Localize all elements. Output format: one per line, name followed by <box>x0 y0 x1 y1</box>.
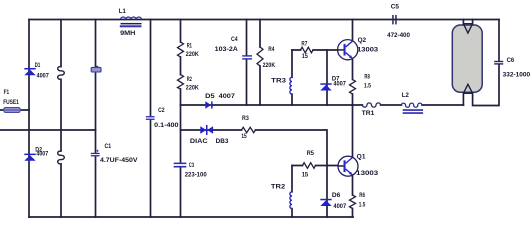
wire C2 line <box>150 20 152 218</box>
resistor R2 <box>178 75 184 90</box>
svg-text:220K: 220K <box>186 51 199 58</box>
resistor (bridge) lower squiggle <box>58 151 65 164</box>
wire Q1 collector <box>352 105 354 156</box>
svg-text:4007: 4007 <box>219 93 236 100</box>
svg-text:C5: C5 <box>391 3 400 10</box>
wire bottom rail <box>29 216 353 218</box>
svg-text:1.5: 1.5 <box>364 83 371 90</box>
resistor (bridge) upper squiggle <box>58 66 65 79</box>
wire Q2 collector <box>352 20 354 40</box>
svg-text:0.1-400: 0.1-400 <box>154 122 179 129</box>
svg-text:R1: R1 <box>187 43 192 50</box>
wire TR2 line <box>291 166 293 218</box>
svg-text:F1: F1 <box>4 89 10 96</box>
resistor R7 <box>301 47 314 53</box>
capacitor C1 <box>91 150 100 157</box>
wire R1 R2 C3 line <box>180 20 182 218</box>
svg-text:R6: R6 <box>359 192 365 199</box>
diode D1 <box>24 68 35 75</box>
svg-text:TR1: TR1 <box>362 110 375 117</box>
svg-text:DIAC: DIAC <box>190 138 208 145</box>
capacitor C6 <box>494 61 503 65</box>
svg-text:C4: C4 <box>231 36 238 43</box>
wire lamp bottom left pin <box>462 93 464 105</box>
lamp bottom filament <box>463 84 472 93</box>
wire left vertical (bridge column 1) <box>28 20 30 218</box>
capacitor C4 <box>242 55 252 59</box>
svg-text:15: 15 <box>302 53 308 60</box>
capacitor C2 <box>146 116 155 120</box>
diode D6 <box>320 199 331 206</box>
capacitor C5 <box>392 15 397 24</box>
wire AC neutral row <box>0 129 96 131</box>
winding TR3 <box>290 77 292 94</box>
svg-text:R2: R2 <box>187 76 192 83</box>
transistor Q1 <box>338 156 358 176</box>
fuse F1 <box>4 108 20 113</box>
resistor R1 <box>178 42 184 57</box>
resistor R4 <box>257 47 263 66</box>
svg-text:103-2A: 103-2A <box>215 46 239 53</box>
lamp tube <box>452 25 482 92</box>
svg-text:9MH: 9MH <box>120 30 136 37</box>
resistor R8 <box>350 80 356 95</box>
inductor L1 <box>120 17 142 27</box>
svg-text:15: 15 <box>302 171 309 178</box>
svg-text:R7: R7 <box>301 40 307 47</box>
svg-text:220K: 220K <box>263 62 276 69</box>
wire R7 base row Q2 <box>292 49 338 51</box>
svg-text:R3: R3 <box>242 115 249 122</box>
svg-text:Q2: Q2 <box>358 37 367 44</box>
svg-text:4007: 4007 <box>36 150 48 157</box>
svg-text:4.7UF-450V: 4.7UF-450V <box>100 157 138 164</box>
svg-text:D5: D5 <box>205 93 215 100</box>
svg-text:FUSE1: FUSE1 <box>3 99 19 106</box>
wire R4 line <box>259 20 261 106</box>
wire C6 top drop <box>498 20 500 61</box>
svg-text:D6: D6 <box>332 192 341 199</box>
resistor R3 <box>242 127 256 132</box>
svg-text:223-100: 223-100 <box>185 172 207 179</box>
wire mid rail <box>181 104 464 106</box>
wire top rail <box>29 19 499 21</box>
svg-text:R5: R5 <box>307 150 315 157</box>
wire bridge column 2 <box>60 20 62 218</box>
svg-text:1.5: 1.5 <box>359 201 366 208</box>
transistor Q2 <box>338 40 358 60</box>
svg-text:TR3: TR3 <box>271 77 286 84</box>
svg-text:4007: 4007 <box>333 203 346 210</box>
svg-text:R8: R8 <box>364 73 370 80</box>
svg-text:4007: 4007 <box>37 72 50 79</box>
wire lamp bottom right pin to C6 <box>473 65 499 106</box>
capacitor C3 <box>174 163 187 168</box>
svg-text:13003: 13003 <box>357 46 378 53</box>
wire lamp top pins <box>463 20 472 24</box>
winding TR1 <box>362 103 380 107</box>
wire Q1 emitter to R6 to bottom rail <box>352 176 354 217</box>
svg-text:332-1000: 332-1000 <box>503 71 530 78</box>
resistor R5 <box>303 163 316 169</box>
svg-text:15: 15 <box>241 133 247 140</box>
svg-text:L1: L1 <box>119 8 126 15</box>
diode D5 <box>205 101 212 108</box>
thermal fuse box <box>91 66 101 72</box>
svg-text:C2: C2 <box>158 107 165 114</box>
svg-text:472-400: 472-400 <box>387 32 410 39</box>
svg-text:C6: C6 <box>507 57 515 64</box>
wire diac row and D6 branch <box>181 130 328 217</box>
svg-text:L2: L2 <box>402 92 409 99</box>
wire R5 base row Q1 <box>292 165 338 167</box>
lamp top filament <box>463 24 472 33</box>
wire bridge column 3 / C1 line <box>95 20 97 218</box>
wire TR3 line <box>291 50 293 105</box>
diac DB3 <box>200 125 213 135</box>
svg-text:DB3: DB3 <box>216 138 229 145</box>
svg-text:220K: 220K <box>186 85 199 92</box>
svg-text:4007: 4007 <box>333 80 346 87</box>
inductor L2 <box>401 103 423 114</box>
winding TR2 <box>290 192 292 209</box>
svg-text:13003: 13003 <box>356 170 378 177</box>
svg-text:D1: D1 <box>35 62 41 69</box>
svg-text:C1: C1 <box>105 143 112 150</box>
diode D2 <box>24 154 35 161</box>
wire Q2 emitter to R8 to mid rail <box>352 60 354 105</box>
wire AC fuse row <box>0 109 29 111</box>
svg-text:Q1: Q1 <box>357 154 366 161</box>
diode D7 <box>320 83 331 90</box>
resistor R6 <box>350 195 356 209</box>
wire D7 line <box>326 50 328 105</box>
svg-text:R4: R4 <box>268 46 274 53</box>
svg-text:C3: C3 <box>189 162 194 169</box>
svg-text:TR2: TR2 <box>271 183 286 190</box>
wire C4 line <box>246 20 248 106</box>
